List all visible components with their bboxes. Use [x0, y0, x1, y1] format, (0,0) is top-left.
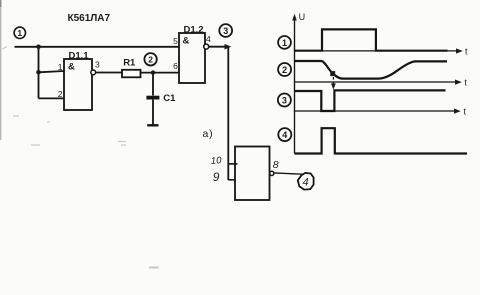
ground	[147, 124, 158, 126]
svg-text:2: 2	[282, 65, 287, 75]
wire: pin 10 stub	[228, 163, 237, 165]
inversion bubble D1.3 output	[270, 171, 274, 175]
svg-text:а): а)	[203, 128, 214, 140]
svg-text:4: 4	[282, 130, 287, 140]
svg-text:3: 3	[223, 26, 228, 36]
threshold marker dot on curve	[330, 71, 335, 76]
svg-text:4: 4	[303, 177, 309, 189]
wire: D1.3 output to node 4	[274, 173, 302, 174]
scan specks	[3, 47, 127, 146]
inversion bubble D1.1 output	[91, 70, 96, 75]
gate D1.2 body	[179, 33, 205, 83]
arrowhead	[225, 44, 232, 50]
svg-text:8: 8	[273, 159, 279, 171]
gate D1.3 body	[235, 147, 270, 201]
svg-text:3: 3	[95, 60, 100, 70]
wire: to pin 1 of D1.1	[39, 71, 65, 72]
wire: pin 9 stub	[228, 179, 235, 181]
waveform 2 trace (RC discharge/charge curve)	[295, 61, 448, 79]
wire: to pin 2 of D1.1	[39, 97, 65, 99]
svg-text:D1.1: D1.1	[69, 51, 90, 62]
capacitor C1	[146, 73, 159, 125]
svg-text:2: 2	[148, 55, 153, 65]
inversion bubble D1.2 output	[204, 44, 209, 49]
svg-text:1: 1	[58, 62, 63, 72]
svg-text:D1.2: D1.2	[184, 24, 204, 35]
wire: D1.2 output with arrow	[209, 46, 227, 48]
waveform 1 circle	[278, 36, 291, 49]
waveform 1 t axis	[295, 46, 469, 56]
svg-text:1: 1	[282, 38, 287, 48]
svg-text:К561ЛА7: К561ЛА7	[68, 13, 111, 24]
junction	[36, 45, 41, 50]
wire: R1 to pin 6 of D1.2	[141, 72, 180, 74]
svg-text:&: &	[183, 36, 190, 47]
svg-text:2: 2	[58, 89, 63, 99]
svg-text:9: 9	[213, 170, 220, 184]
junction	[36, 70, 41, 75]
waveform 4 trace (positive pulse)	[295, 128, 468, 153]
waveform 3 t axis	[295, 107, 467, 117]
wire: D1.1 output to R1	[96, 72, 122, 74]
scan left border artifact	[0, 0, 2, 140]
waveform 2 circle	[278, 63, 291, 76]
waveform 3 trace (negative pulse)	[295, 90, 446, 111]
wire: vertical branch	[38, 47, 40, 99]
svg-text:3: 3	[282, 96, 287, 106]
svg-text:4: 4	[206, 34, 211, 44]
node 3 circle	[219, 24, 232, 37]
svg-text:5: 5	[173, 36, 178, 46]
junction node 2	[151, 70, 155, 74]
svg-text:10: 10	[211, 155, 223, 167]
svg-text:&: &	[68, 62, 75, 73]
svg-text:6: 6	[173, 61, 178, 71]
node 4 circle (handwritten)	[298, 173, 314, 190]
waveform 4 circle	[278, 128, 291, 141]
scan speck bottom	[149, 267, 159, 269]
waveform 2 t axis	[295, 78, 468, 88]
node 2 circle	[144, 53, 156, 65]
gate D1.1 body	[64, 59, 92, 110]
U axis	[292, 12, 305, 153]
svg-text:U: U	[299, 12, 306, 22]
resistor R1	[122, 70, 141, 78]
waveform 3 circle	[278, 94, 291, 107]
svg-text:R1: R1	[123, 57, 136, 68]
wire: input node 1 to pin 5 of D1.2	[15, 46, 180, 48]
svg-text:1: 1	[17, 28, 22, 38]
node 1 circle	[14, 27, 25, 38]
waveform 1 trace (pulse)	[295, 29, 448, 50]
svg-text:C1: C1	[163, 93, 176, 104]
wire: down to second gate	[227, 47, 229, 180]
dashed threshold drop line with arrow	[331, 77, 336, 90]
